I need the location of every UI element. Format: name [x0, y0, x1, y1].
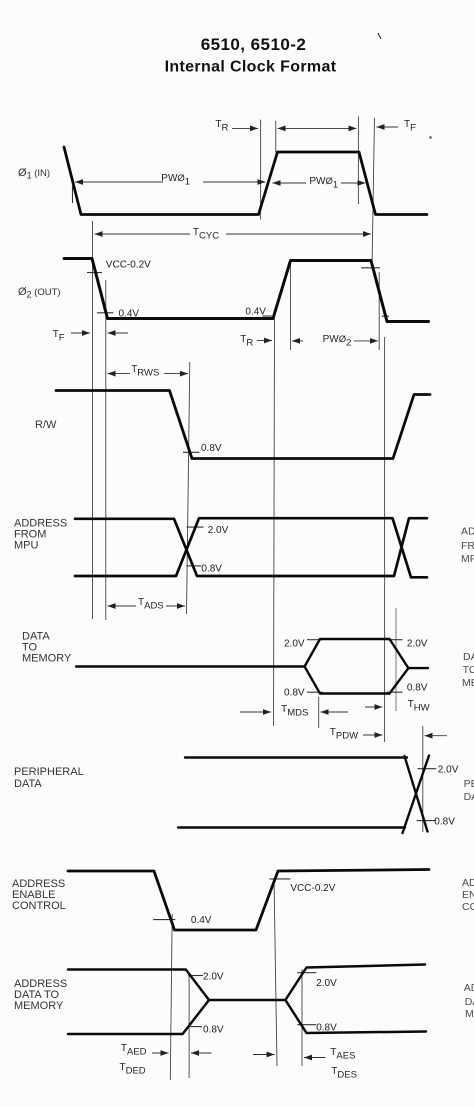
svg-text:0.4V: 0.4V: [245, 307, 266, 318]
svg-text:MPU: MPU: [461, 553, 474, 565]
svg-text:CONTROL: CONTROL: [12, 900, 66, 912]
svg-text:TR: TR: [240, 334, 253, 349]
svg-text:0.8V: 0.8V: [201, 443, 222, 454]
svg-text:TR: TR: [215, 119, 228, 134]
svg-text:PERIPHERAL: PERIPHERAL: [14, 766, 84, 778]
svg-text:THW: THW: [408, 699, 430, 714]
svg-text:MEM: MEM: [465, 1008, 474, 1020]
svg-text:TO: TO: [463, 664, 474, 676]
svg-text:MEMORY: MEMORY: [22, 653, 72, 665]
svg-text:ENABLE: ENABLE: [462, 889, 474, 901]
svg-text:ADDRESS: ADDRESS: [464, 982, 474, 994]
svg-text:TMDS: TMDS: [281, 704, 308, 719]
svg-text:VCC-0.2V: VCC-0.2V: [106, 260, 151, 271]
svg-text:2.0V: 2.0V: [407, 639, 428, 650]
svg-text:TRWS: TRWS: [131, 364, 159, 379]
svg-text:TF: TF: [404, 119, 416, 134]
svg-text:TCYC: TCYC: [193, 227, 219, 242]
svg-text:PERIPHERAL: PERIPHERAL: [464, 778, 474, 790]
svg-text:2.0V: 2.0V: [316, 978, 337, 989]
svg-text:2.0V: 2.0V: [284, 639, 305, 650]
svg-text:Internal Clock Format: Internal Clock Format: [165, 59, 337, 76]
svg-text:TADS: TADS: [138, 597, 164, 612]
svg-text:DATA: DATA: [463, 651, 474, 663]
svg-text:TF: TF: [53, 329, 65, 344]
svg-text:ADDRESS: ADDRESS: [461, 526, 474, 538]
svg-text:TDES: TDES: [331, 1066, 357, 1081]
svg-text:DATA: DATA: [465, 996, 474, 1008]
svg-text:MEMORY: MEMORY: [462, 677, 474, 689]
svg-text:TAED: TAED: [121, 1043, 147, 1058]
svg-text:0.8V: 0.8V: [434, 817, 455, 828]
svg-text:0.8V: 0.8V: [407, 683, 428, 694]
svg-text:2.0V: 2.0V: [208, 525, 229, 536]
svg-text:CONTROL: CONTROL: [462, 901, 474, 913]
svg-text:Ø1 (IN): Ø1 (IN): [18, 167, 50, 181]
svg-text:0.8V: 0.8V: [201, 564, 222, 575]
svg-text:6510, 6510-2: 6510, 6510-2: [201, 35, 307, 54]
svg-text:0.4V: 0.4V: [119, 309, 140, 320]
svg-text:DATA: DATA: [464, 791, 474, 803]
svg-text:MEMORY: MEMORY: [14, 1000, 64, 1012]
svg-text:MPU: MPU: [14, 540, 39, 552]
svg-text:PWØ1: PWØ1: [161, 173, 190, 188]
svg-text:ADDRESS: ADDRESS: [462, 877, 474, 889]
svg-text:0.4V: 0.4V: [191, 915, 212, 926]
svg-text:FROM: FROM: [461, 540, 474, 552]
svg-text:2.0V: 2.0V: [438, 765, 459, 776]
svg-text:PWØ2: PWØ2: [323, 334, 352, 349]
svg-text:2.0V: 2.0V: [203, 972, 224, 983]
svg-text:0.8V: 0.8V: [316, 1023, 337, 1034]
svg-text:VCC-0.2V: VCC-0.2V: [290, 883, 335, 894]
svg-text:PWØ1: PWØ1: [309, 176, 338, 191]
svg-text:DATA: DATA: [14, 778, 42, 790]
svg-text:0.8V: 0.8V: [284, 688, 305, 699]
svg-text:TDED: TDED: [120, 1062, 146, 1077]
svg-text:Ø2 (OUT): Ø2 (OUT): [18, 286, 61, 300]
svg-text:0.8V: 0.8V: [203, 1025, 224, 1036]
svg-text:TPDW: TPDW: [330, 727, 358, 742]
svg-text:R/W: R/W: [35, 419, 57, 431]
svg-text:TAES: TAES: [330, 1047, 355, 1062]
